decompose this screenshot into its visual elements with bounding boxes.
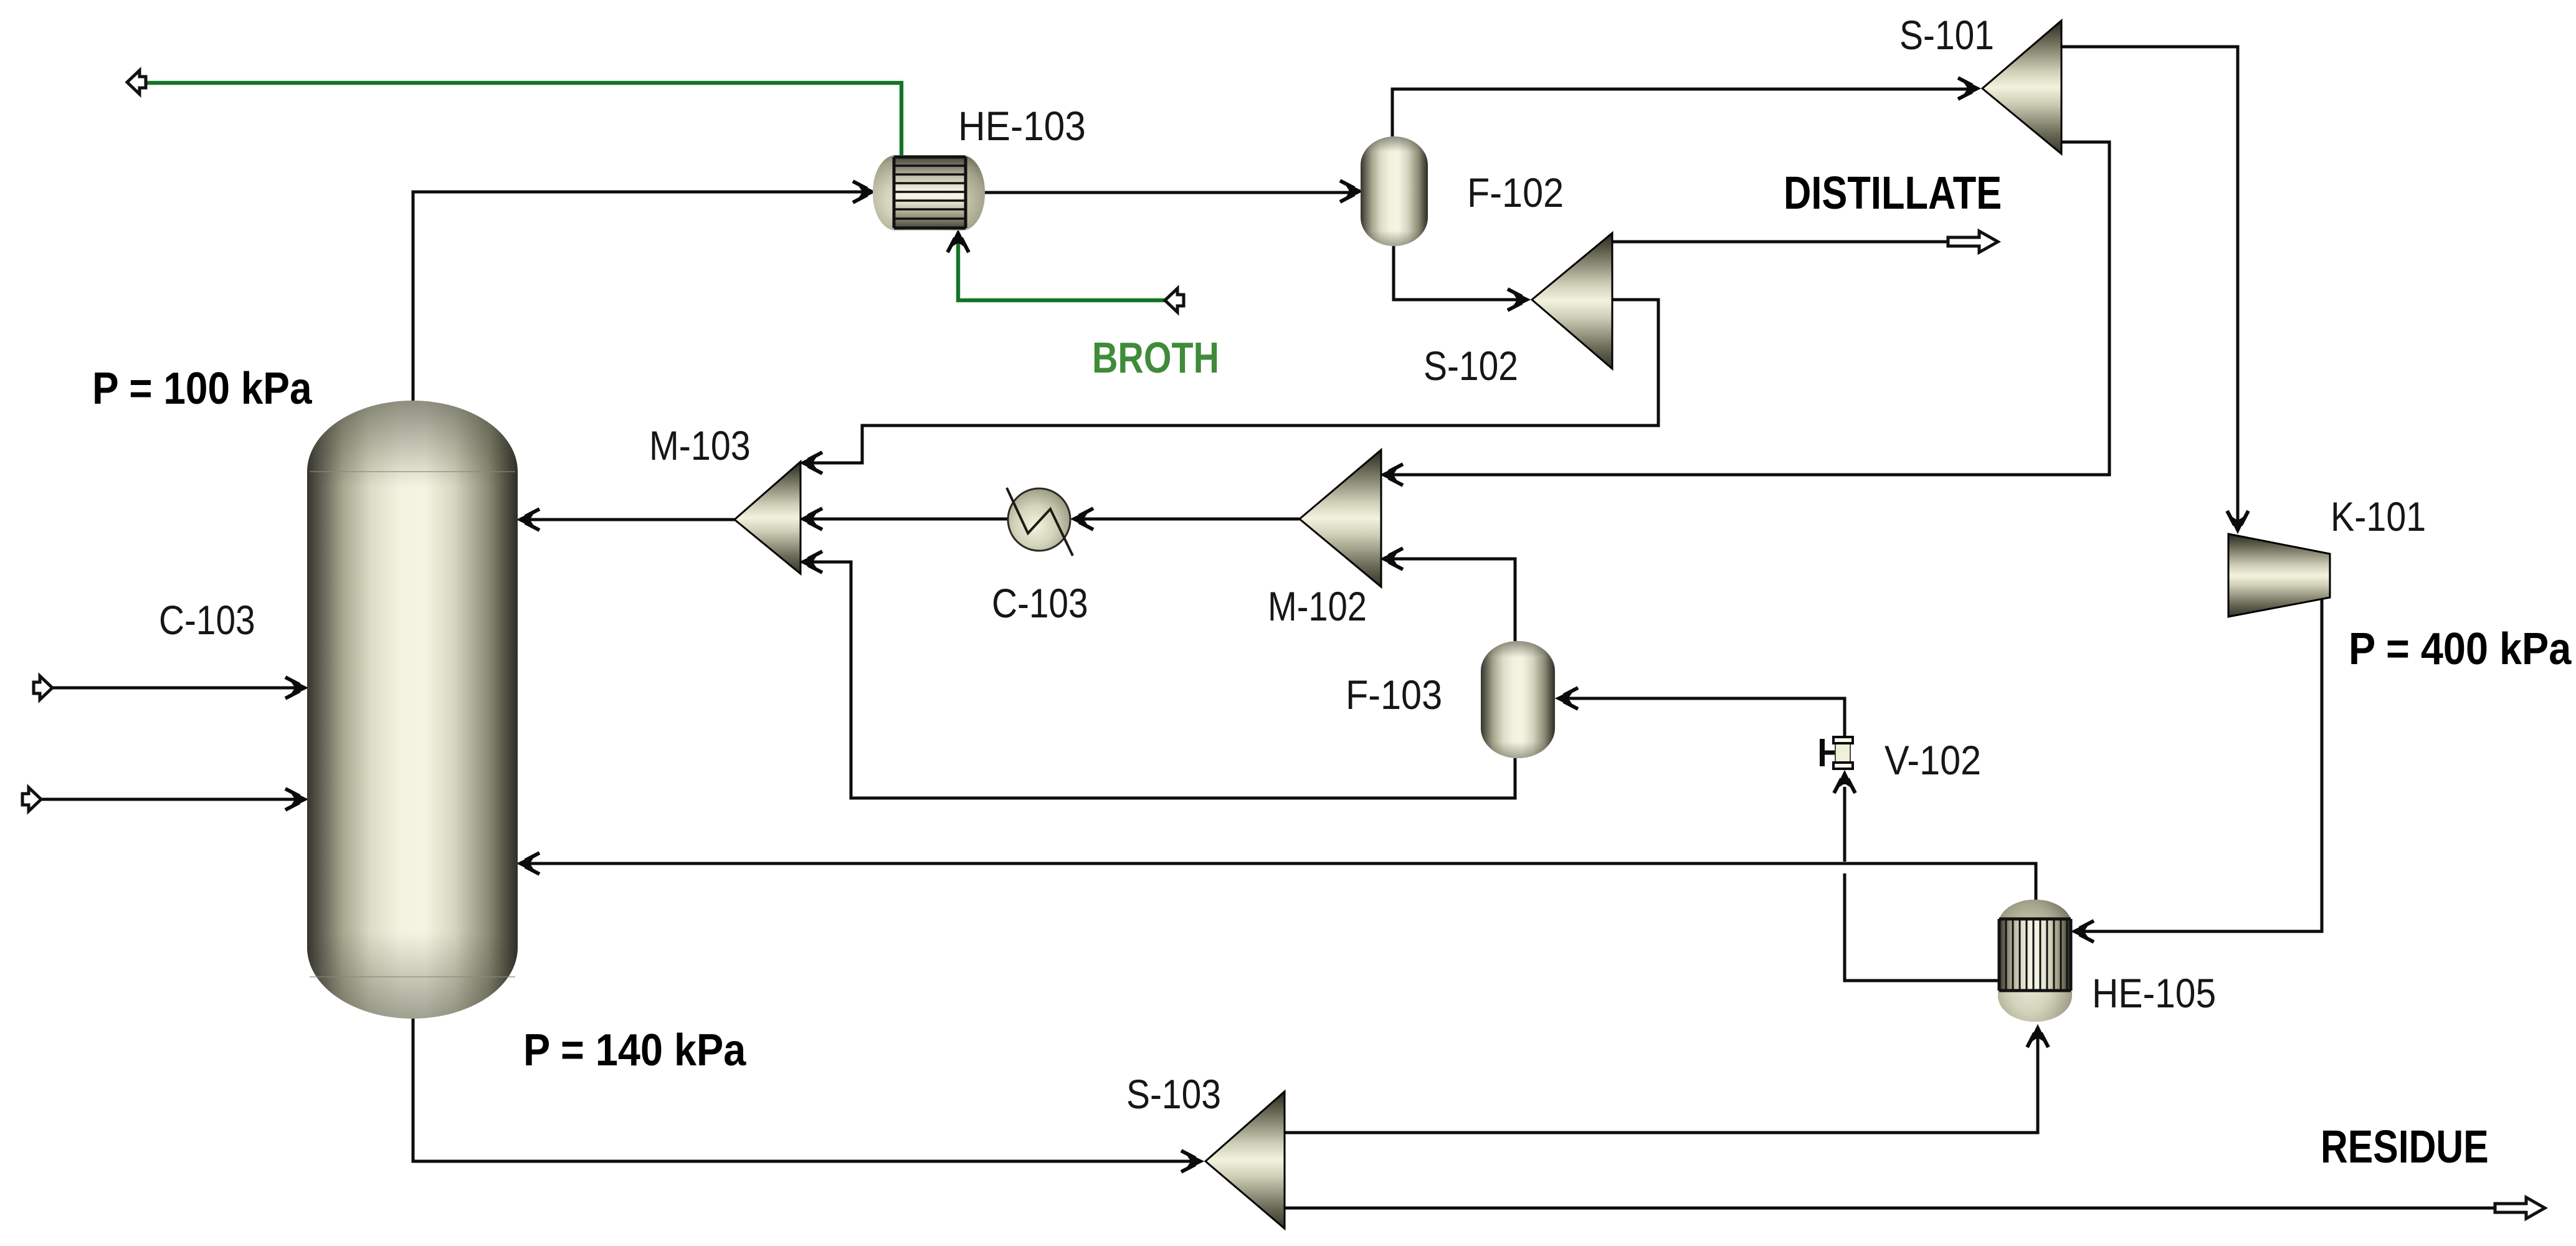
wire: HE-105 left outlet up through V-102 to F-103 [1560, 698, 1998, 981]
label V-102 [1884, 738, 1981, 784]
splitter S-101 [1982, 21, 2061, 154]
svg-text:RESIDUE: RESIDUE [2321, 1121, 2489, 1172]
arrow up into HE-103 cold inlet [948, 231, 969, 252]
wire: K-101 outlet down to HE-105 right port [2076, 597, 2322, 931]
arrow into HE-105 right port [2072, 921, 2094, 942]
svg-text:P = 140 kPa: P = 140 kPa [523, 1025, 746, 1075]
wire: S-101 top outlet down to K-101 [2061, 47, 2238, 529]
arrow into M-103 bottom port [801, 551, 822, 573]
open arrow RESIDUE output [2495, 1197, 2545, 1219]
wire: M-103 outlet to column C-103 [521, 518, 734, 521]
svg-text:BROTH: BROTH [1092, 333, 1219, 383]
label M-103 [649, 423, 751, 469]
label HE-105 [2092, 971, 2216, 1017]
label P = 400 kPa [2349, 624, 2572, 674]
compressor K-101 [2228, 534, 2330, 617]
wire: F-102 top vapour to S-101 [1392, 89, 1976, 136]
svg-text:M-103: M-103 [649, 423, 751, 469]
arrow into M-102 top port [1381, 464, 1403, 485]
arrow into M-102 bottom port [1381, 548, 1403, 569]
column C-103 [307, 401, 518, 1019]
open arrow feed 1 terminal [34, 676, 52, 700]
wire: F-103 top vapour to M-102 bottom port [1385, 559, 1515, 641]
arrow into S-103 tip [1181, 1151, 1203, 1172]
svg-text:C-103: C-103 [159, 597, 255, 644]
arrow into F-102 inlet [1340, 181, 1362, 202]
svg-text:HE-103: HE-103 [958, 104, 1086, 150]
svg-text:DISTILLATE: DISTILLATE [1784, 168, 2002, 219]
arrow up into valve V-102 [1834, 771, 1855, 793]
svg-text:F-103: F-103 [1346, 672, 1442, 718]
svg-text:F-102: F-102 [1467, 170, 1564, 216]
arrow into cooler C-103 [1072, 508, 1093, 530]
cooler C-103 (circle with zigzag) [1007, 488, 1073, 556]
open arrow green output terminal [127, 70, 146, 94]
splitter S-102 [1532, 233, 1612, 369]
arrow up into HE-105 bottom port [2027, 1025, 2048, 1047]
wire: column top vapour line to HE-103 [413, 192, 871, 401]
wire: green product stream from HE-103 top to left terminal [147, 83, 901, 158]
label C-103 cooler [992, 581, 1088, 627]
arrow into S-102 tip [1508, 289, 1529, 310]
label M-102 [1268, 584, 1367, 629]
svg-text:V-102: V-102 [1884, 738, 1981, 784]
splitter S-103 [1205, 1091, 1285, 1229]
svg-text:HE-105: HE-105 [2092, 971, 2216, 1017]
arrow into column lower right port [518, 853, 539, 874]
flash drum F-102 [1361, 136, 1428, 246]
label C-103 column [159, 597, 255, 644]
label RESIDUE [2321, 1121, 2489, 1172]
arrow into M-103 top port [801, 452, 822, 473]
mixer M-102 [1300, 450, 1381, 587]
arrow into HE-103 hot inlet [853, 181, 875, 202]
label P = 140 kPa [523, 1025, 746, 1075]
label DISTILLATE [1784, 168, 2002, 219]
label BROTH [1092, 333, 1219, 383]
svg-text:S-102: S-102 [1423, 343, 1518, 389]
heat exchanger HE-103 [873, 155, 985, 231]
arrow into column upper right port [518, 509, 539, 530]
svg-text:K-101: K-101 [2331, 494, 2426, 540]
wire: F-102 bottom liquid to S-102 [1394, 246, 1526, 300]
wire: S-103 top outlet to HE-105 bottom [1285, 1029, 2038, 1133]
flash drum F-103 [1481, 641, 1555, 758]
wire: F-103 bottom liquid loop to M-103 bottom port [804, 562, 1515, 798]
wire: S-102 bottom outlet loop to M-103 top port [804, 300, 1658, 463]
svg-text:P = 100 kPa: P = 100 kPa [92, 363, 313, 413]
open arrow feed 2 terminal [22, 787, 41, 811]
mixer M-103 [734, 462, 801, 574]
svg-text:P = 400 kPa: P = 400 kPa [2349, 624, 2572, 674]
svg-text:S-101: S-101 [1899, 12, 1994, 59]
wire: column bottoms to S-103 [413, 1019, 1199, 1161]
wire: HE-105 condensate return to column [521, 863, 2036, 903]
wire: S-103 bottom outlet to RESIDUE terminal [1285, 1207, 2495, 1210]
arrow into column feed port 2 [285, 789, 307, 810]
arrow into M-103 middle port [801, 508, 822, 530]
label S-103 [1126, 1072, 1221, 1118]
label K-101 [2331, 494, 2426, 540]
heat exchanger HE-105 [1998, 900, 2072, 1022]
wire: feed stream 2 into column [40, 798, 303, 801]
arrow into S-101 tip [1958, 78, 1980, 99]
wire: cooler C-103 outlet to M-103 middle port [804, 518, 1008, 521]
open arrow BROTH input terminal [1165, 288, 1184, 312]
wire: S-101 bottom outlet to M-102 top port [1385, 142, 2109, 475]
open arrow DISTILLATE output [1948, 231, 1998, 252]
wire: S-102 top outlet to DISTILLATE terminal [1612, 240, 1947, 244]
valve V-102 [1822, 737, 1853, 769]
label F-102 [1467, 170, 1564, 216]
label HE-103 [958, 104, 1086, 150]
arrow into K-101 inlet [2227, 511, 2248, 533]
wire: HE-103 outlet to F-102 [985, 191, 1358, 194]
wire: green BROTH feed into HE-103 bottom [958, 234, 1166, 300]
svg-text:M-102: M-102 [1268, 584, 1367, 629]
svg-text:C-103: C-103 [992, 581, 1088, 627]
label S-102 [1423, 343, 1518, 389]
wire: M-102 outlet to cooler C-103 [1074, 518, 1300, 521]
label F-103 [1346, 672, 1442, 718]
wire: feed stream 1 into column [52, 687, 303, 690]
arrow into column feed port 1 [285, 677, 307, 698]
arrow into F-103 right port [1556, 688, 1578, 709]
svg-text:S-103: S-103 [1126, 1072, 1221, 1118]
label P = 100 kPa [92, 363, 313, 413]
label S-101 [1899, 12, 1994, 59]
